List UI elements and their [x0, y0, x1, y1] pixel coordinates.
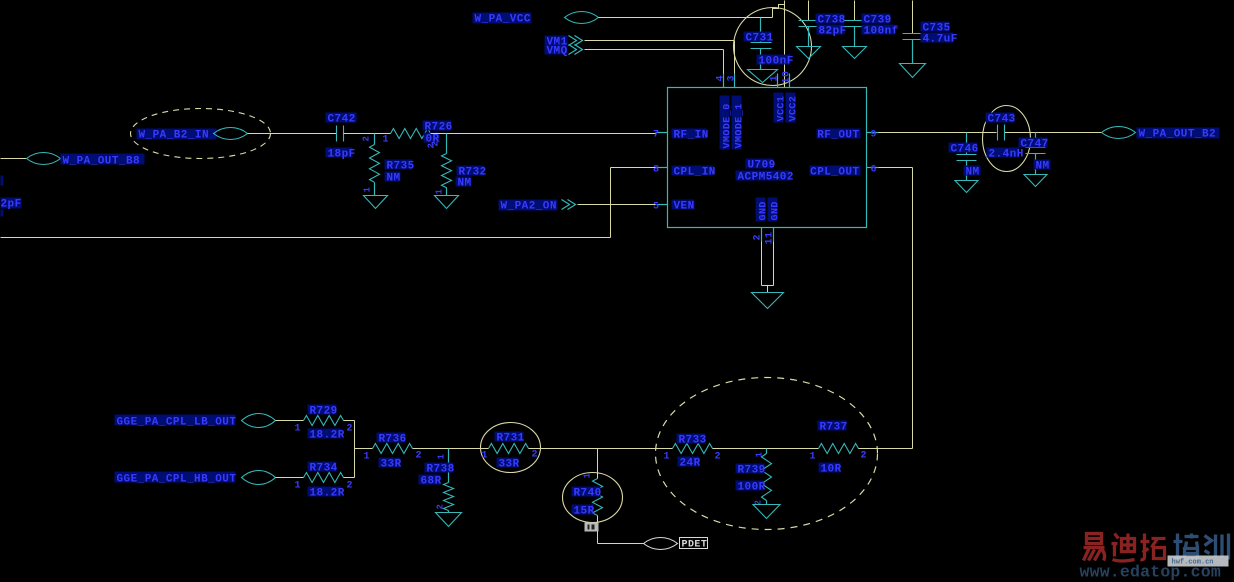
svg-text:2: 2 [362, 136, 372, 142]
svg-text:C742: C742 [328, 114, 356, 126]
svg-text:18.2R: 18.2R [310, 488, 345, 500]
svg-text:4.7uF: 4.7uF [923, 34, 958, 46]
svg-text:10: 10 [782, 71, 793, 84]
svg-text:24R: 24R [680, 458, 701, 470]
svg-text:C731: C731 [746, 33, 774, 45]
svg-text:1: 1 [583, 473, 593, 479]
svg-text:C743: C743 [988, 114, 1016, 126]
svg-text:15R: 15R [574, 506, 595, 518]
svg-text:2: 2 [347, 424, 353, 435]
svg-text:18pF: 18pF [328, 149, 356, 161]
svg-text:VCC2: VCC2 [789, 96, 800, 122]
svg-text:CPL_IN: CPL_IN [674, 167, 716, 179]
svg-text:68R: 68R [421, 476, 442, 488]
svg-text:C746: C746 [951, 144, 979, 156]
svg-text:VMODE_0: VMODE_0 [723, 103, 734, 148]
svg-text:NM: NM [1036, 161, 1050, 173]
svg-text:R733: R733 [679, 435, 707, 447]
svg-text:100R: 100R [738, 482, 766, 494]
svg-text:RF_OUT: RF_OUT [817, 130, 859, 142]
svg-text:GGE_PA_CPL_HB_OUT: GGE_PA_CPL_HB_OUT [117, 474, 237, 486]
svg-text:R726: R726 [425, 122, 453, 134]
svg-text:33R: 33R [499, 459, 520, 471]
svg-text:2: 2 [753, 234, 764, 240]
svg-text:2: 2 [416, 451, 422, 462]
svg-text:U709: U709 [748, 160, 776, 172]
svg-text:VMODE_1: VMODE_1 [735, 103, 746, 148]
svg-text:8: 8 [653, 165, 659, 176]
svg-text:9: 9 [871, 130, 877, 141]
svg-text:1: 1 [437, 454, 447, 460]
svg-text:GND: GND [771, 201, 782, 220]
svg-text:7: 7 [653, 130, 659, 141]
svg-text:NM: NM [966, 167, 980, 179]
svg-text:33R: 33R [381, 459, 402, 471]
svg-text:NM: NM [387, 173, 401, 185]
svg-text:VEN: VEN [674, 201, 695, 213]
svg-text:2: 2 [532, 450, 538, 461]
svg-text:R735: R735 [387, 161, 415, 173]
svg-text:C747: C747 [1021, 139, 1049, 151]
svg-text:W_PA_OUT_B8: W_PA_OUT_B8 [63, 156, 141, 168]
svg-text:R729: R729 [310, 406, 338, 418]
svg-text:NM: NM [458, 178, 472, 190]
svg-text:10R: 10R [821, 464, 842, 476]
svg-text:1: 1 [770, 75, 781, 81]
svg-text:2: 2 [431, 141, 441, 147]
svg-text:1: 1 [364, 452, 370, 463]
svg-text:R731: R731 [497, 433, 525, 445]
svg-text:1: 1 [435, 189, 445, 195]
svg-text:R738: R738 [427, 464, 455, 476]
svg-text:1: 1 [295, 481, 301, 492]
svg-text:100nF: 100nF [759, 56, 794, 68]
svg-text:1: 1 [664, 452, 670, 463]
svg-text:1: 1 [383, 135, 389, 146]
svg-text:18.2R: 18.2R [310, 430, 345, 442]
svg-text:4: 4 [716, 75, 727, 81]
svg-text:100nf: 100nf [864, 26, 899, 38]
svg-text:5: 5 [653, 202, 659, 213]
svg-text:6: 6 [871, 165, 877, 176]
svg-text:VMQ: VMQ [547, 46, 568, 58]
svg-text:W_PA_OUT_B2: W_PA_OUT_B2 [1139, 129, 1217, 141]
svg-text:R740: R740 [574, 488, 602, 500]
svg-text:82pF: 82pF [819, 26, 847, 38]
svg-text:2pF: 2pF [1, 199, 22, 211]
svg-text:2: 2 [347, 481, 353, 492]
svg-text:2: 2 [861, 451, 867, 462]
svg-text:1: 1 [482, 451, 488, 462]
svg-text:2.4nH: 2.4nH [989, 149, 1024, 161]
svg-text:CPL_OUT: CPL_OUT [810, 167, 859, 179]
svg-text:2: 2 [436, 504, 446, 510]
svg-text:RF_IN: RF_IN [674, 130, 709, 142]
svg-text:W_PA_VCC: W_PA_VCC [475, 14, 531, 26]
svg-text:R734: R734 [310, 463, 338, 475]
svg-text:1: 1 [755, 452, 765, 458]
svg-text:1: 1 [363, 187, 373, 193]
svg-text:R736: R736 [379, 434, 407, 446]
svg-text:VCC1: VCC1 [777, 96, 788, 122]
svg-text:1: 1 [810, 452, 816, 463]
svg-text:W_PA_B2_IN: W_PA_B2_IN [139, 130, 210, 142]
svg-text:1: 1 [295, 424, 301, 435]
svg-text:www.edatop.com: www.edatop.com [1080, 563, 1221, 582]
svg-text:R737: R737 [820, 422, 848, 434]
svg-text:ACPM5402: ACPM5402 [738, 172, 794, 184]
svg-text:W_PA2_ON: W_PA2_ON [501, 201, 557, 213]
svg-text:3: 3 [727, 75, 738, 81]
svg-text:2: 2 [715, 452, 721, 463]
svg-text:R739: R739 [738, 465, 766, 477]
svg-text:GGE_PA_CPL_LB_OUT: GGE_PA_CPL_LB_OUT [117, 417, 237, 429]
svg-text:PDET: PDET [682, 540, 708, 551]
svg-text:GND: GND [759, 201, 770, 220]
